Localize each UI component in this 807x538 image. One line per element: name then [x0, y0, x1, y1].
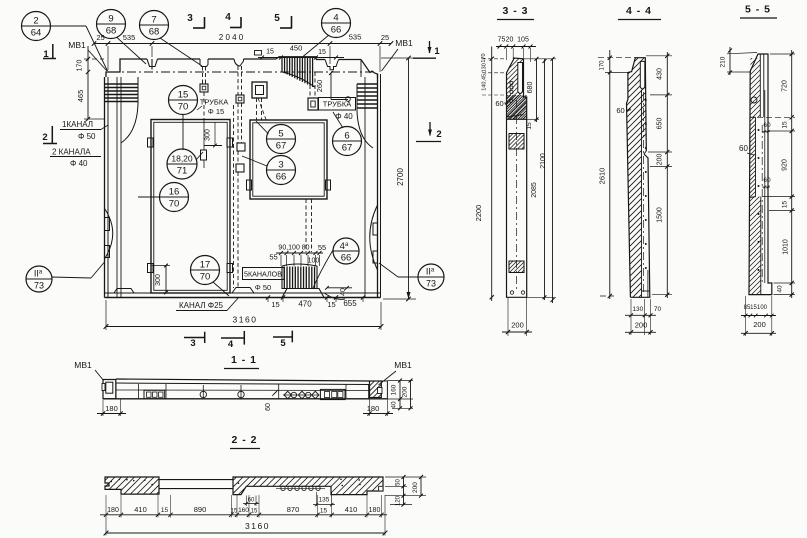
svg-text:Φ 50: Φ 50 — [255, 283, 271, 292]
svg-text:15: 15 — [782, 201, 789, 209]
svg-text:535: 535 — [349, 33, 362, 42]
svg-text:ТРУБКА: ТРУБКА — [200, 98, 228, 107]
svg-text:15: 15 — [178, 90, 189, 101]
svg-text:18,20: 18,20 — [171, 154, 193, 164]
svg-text:60: 60 — [763, 122, 771, 129]
svg-text:15: 15 — [251, 509, 258, 515]
svg-text:120: 120 — [396, 495, 402, 506]
svg-text:535: 535 — [123, 33, 136, 42]
svg-text:650: 650 — [657, 118, 664, 130]
svg-text:5: 5 — [274, 13, 280, 24]
svg-text:4 - 4: 4 - 4 — [626, 5, 652, 17]
svg-text:64: 64 — [31, 28, 42, 39]
svg-text:1 - 1: 1 - 1 — [231, 354, 257, 366]
svg-text:200: 200 — [402, 386, 409, 397]
svg-text:КАНАЛ Φ25: КАНАЛ Φ25 — [179, 301, 224, 310]
svg-text:60: 60 — [739, 144, 748, 153]
svg-text:ТРУБКА: ТРУБКА — [323, 100, 351, 109]
svg-text:3160: 3160 — [233, 315, 258, 325]
svg-text:71: 71 — [177, 166, 188, 177]
svg-text:2100: 2100 — [540, 153, 547, 169]
svg-text:200: 200 — [753, 320, 766, 329]
svg-text:15: 15 — [320, 508, 328, 515]
svg-text:2 КАНАЛА: 2 КАНАЛА — [52, 148, 91, 157]
svg-text:135: 135 — [319, 497, 330, 504]
svg-text:60: 60 — [495, 99, 503, 108]
svg-text:2: 2 — [436, 129, 441, 140]
svg-text:200: 200 — [412, 482, 419, 493]
svg-text:40: 40 — [340, 288, 347, 296]
svg-text:15: 15 — [327, 300, 335, 309]
svg-text:15: 15 — [271, 300, 279, 309]
svg-text:55: 55 — [318, 243, 326, 252]
svg-text:180: 180 — [367, 404, 380, 413]
svg-text:15: 15 — [318, 49, 326, 56]
svg-text:470: 470 — [298, 300, 312, 309]
svg-text:920: 920 — [782, 159, 789, 171]
svg-text:67: 67 — [342, 143, 353, 154]
svg-text:66: 66 — [341, 253, 352, 264]
svg-text:16: 16 — [169, 187, 180, 198]
svg-text:20: 20 — [506, 37, 514, 44]
svg-text:9: 9 — [108, 14, 113, 25]
svg-text:870: 870 — [287, 505, 300, 514]
svg-text:6: 6 — [344, 131, 349, 142]
svg-text:3 - 3: 3 - 3 — [502, 5, 528, 17]
svg-text:МВ1: МВ1 — [394, 360, 412, 370]
svg-text:50: 50 — [396, 479, 402, 486]
svg-text:17: 17 — [200, 260, 211, 271]
svg-text:2 0 4 0: 2 0 4 0 — [219, 33, 244, 42]
svg-text:60: 60 — [265, 403, 272, 411]
svg-text:720: 720 — [782, 80, 789, 92]
svg-text:105: 105 — [517, 37, 529, 44]
svg-text:7: 7 — [151, 15, 156, 26]
svg-text:73: 73 — [426, 279, 436, 289]
svg-text:4: 4 — [333, 13, 338, 24]
svg-text:170: 170 — [600, 60, 606, 71]
svg-text:200: 200 — [657, 154, 664, 166]
svg-text:200: 200 — [635, 321, 648, 330]
svg-text:430: 430 — [657, 68, 664, 80]
svg-text:1500: 1500 — [657, 207, 664, 223]
svg-text:3: 3 — [190, 338, 195, 349]
svg-text:90,100 80: 90,100 80 — [278, 245, 309, 252]
svg-text:3: 3 — [278, 160, 283, 171]
svg-text:100: 100 — [757, 305, 768, 311]
svg-text:40: 40 — [391, 401, 398, 409]
svg-text:130: 130 — [632, 306, 643, 313]
svg-text:2: 2 — [42, 132, 47, 143]
svg-text:140,45,130: 140,45,130 — [482, 63, 488, 91]
svg-text:МВ1: МВ1 — [395, 38, 413, 48]
svg-text:55: 55 — [269, 253, 277, 262]
svg-text:МВ1: МВ1 — [68, 40, 86, 50]
svg-text:170: 170 — [481, 53, 487, 62]
svg-text:180: 180 — [369, 507, 381, 514]
svg-text:60: 60 — [616, 106, 624, 115]
svg-text:15: 15 — [782, 121, 789, 129]
svg-text:73: 73 — [34, 281, 44, 291]
svg-text:25: 25 — [381, 33, 389, 42]
svg-text:655: 655 — [343, 299, 357, 308]
svg-text:465: 465 — [76, 90, 85, 103]
svg-text:300: 300 — [205, 129, 212, 141]
svg-text:2610: 2610 — [598, 168, 607, 185]
svg-text:70: 70 — [654, 306, 662, 313]
svg-text:15: 15 — [526, 122, 533, 130]
svg-text:1КАНАЛ: 1КАНАЛ — [62, 120, 93, 129]
svg-text:66: 66 — [331, 25, 342, 36]
svg-text:5КАНАЛОВ: 5КАНАЛОВ — [244, 272, 282, 279]
svg-text:680: 680 — [527, 82, 534, 94]
svg-text:Φ 15: Φ 15 — [208, 107, 224, 116]
svg-text:25: 25 — [96, 33, 104, 42]
svg-text:5: 5 — [280, 338, 286, 349]
svg-text:15: 15 — [231, 509, 238, 515]
svg-text:40: 40 — [777, 285, 784, 293]
svg-text:2200: 2200 — [474, 205, 483, 222]
svg-text:66: 66 — [276, 172, 287, 183]
svg-text:450: 450 — [290, 44, 303, 53]
svg-text:260: 260 — [315, 80, 324, 93]
svg-text:15: 15 — [161, 507, 169, 514]
svg-text:890: 890 — [194, 505, 207, 514]
svg-text:4: 4 — [225, 12, 231, 23]
svg-text:70: 70 — [178, 102, 189, 113]
svg-text:170: 170 — [77, 60, 84, 72]
svg-text:160: 160 — [238, 507, 249, 514]
svg-text:68: 68 — [149, 27, 160, 38]
svg-text:300: 300 — [155, 274, 162, 286]
svg-text:180: 180 — [107, 507, 119, 514]
svg-text:2085: 2085 — [531, 182, 538, 198]
svg-text:75: 75 — [498, 37, 506, 44]
svg-text:60: 60 — [763, 177, 771, 184]
svg-text:160: 160 — [391, 384, 398, 395]
svg-text:410: 410 — [345, 505, 358, 514]
svg-text:200: 200 — [511, 321, 524, 330]
svg-text:180: 180 — [105, 404, 118, 413]
svg-text:Φ 40: Φ 40 — [335, 112, 353, 121]
svg-text:Φ 50: Φ 50 — [78, 132, 96, 141]
svg-text:5: 5 — [278, 129, 283, 140]
svg-text:210: 210 — [720, 56, 727, 67]
svg-text:410: 410 — [134, 505, 147, 514]
svg-text:3: 3 — [187, 13, 193, 24]
svg-text:2700: 2700 — [396, 168, 405, 186]
svg-text:1: 1 — [434, 46, 440, 57]
svg-text:2: 2 — [33, 16, 38, 27]
svg-text:100: 100 — [308, 258, 320, 265]
svg-text:3160: 3160 — [245, 521, 270, 531]
svg-text:15: 15 — [266, 49, 274, 56]
svg-text:67: 67 — [276, 141, 287, 152]
svg-text:Φ 40: Φ 40 — [70, 159, 88, 168]
svg-text:4: 4 — [228, 339, 234, 350]
svg-text:5 - 5: 5 - 5 — [745, 4, 771, 16]
svg-text:1010: 1010 — [783, 239, 790, 255]
svg-text:68: 68 — [106, 26, 117, 37]
svg-text:МВ1: МВ1 — [74, 360, 92, 370]
svg-text:70: 70 — [200, 272, 211, 283]
svg-text:2 - 2: 2 - 2 — [231, 434, 257, 446]
svg-text:70: 70 — [169, 199, 180, 210]
